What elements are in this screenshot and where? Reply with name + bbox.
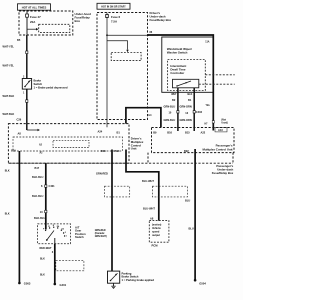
PCM vehicle speed output box: [149, 221, 169, 243]
svg-text:BLK-BLU: BLK-BLU: [32, 194, 43, 198]
svg-text:B17: B17: [35, 166, 40, 170]
arrow branch to sub-box: [27, 28, 38, 31]
svg-text:B15: B15: [185, 131, 190, 135]
wire B22 to ground G504: [194, 149, 196, 280]
svg-text:WHT-YEL: WHT-YEL: [3, 45, 15, 49]
svg-text:BLU-WHT: BLU-WHT: [142, 179, 154, 183]
svg-text:Brake: Brake: [34, 79, 42, 83]
pin A13 not used: [215, 118, 228, 132]
svg-text:Multiplex Control Unit: Multiplex Control Unit: [202, 147, 232, 151]
windshield wiper/washer switch box: [162, 37, 213, 92]
svg-text:BLK-BLU: BLK-BLU: [32, 175, 43, 179]
wire brake switch to multiplex: [26, 89, 28, 124]
driver's under-dash fuse/relay box: [97, 13, 148, 120]
svg-text:G401: G401: [60, 283, 67, 287]
wiper switch caption: [167, 47, 192, 54]
wire A/T switch to ground G401: [54, 244, 56, 284]
under-hood fuse/relay box caption: [75, 12, 92, 23]
mechanical linkage dashes: [199, 83, 235, 85]
ground G504: [194, 279, 207, 285]
svg-text:WHT-YEL: WHT-YEL: [3, 64, 15, 68]
long dashed line driver's bottom and passenger strip: [8, 162, 233, 164]
connector on wire: [177, 111, 179, 113]
svg-text:BLU: BLU: [189, 227, 194, 231]
ground G401: [54, 283, 67, 287]
driver's multiplex control unit: [8, 124, 129, 164]
svg-text:C29: C29: [17, 118, 22, 122]
svg-text:Switch: Switch: [34, 82, 43, 86]
connector on wire: [45, 185, 47, 187]
svg-text:YEL: YEL: [206, 105, 211, 107]
svg-text:BLK: BLK: [40, 259, 45, 261]
svg-text:BLK: BLK: [5, 213, 10, 215]
svg-text:BLK: BLK: [40, 275, 45, 277]
svg-text:GRN-WHT): GRN-WHT): [95, 236, 107, 238]
svg-text:2: 2: [65, 232, 66, 234]
svg-text:1 = Brake pedal depressed: 1 = Brake pedal depressed: [34, 85, 68, 89]
fuse 6: [106, 13, 121, 24]
svg-text:20A: 20A: [30, 20, 36, 24]
mechanical linkage dashes: [205, 74, 234, 76]
svg-text:BLU: BLU: [185, 198, 190, 202]
connector on wire: [26, 100, 28, 103]
svg-text:B1: B1: [117, 131, 121, 135]
svg-text:A24: A24: [98, 130, 103, 134]
svg-text:WHT-BLK: WHT-BLK: [3, 94, 15, 98]
arrow into relay sub-box: [126, 50, 128, 52]
node junction at box edge: [147, 34, 149, 36]
wire wiper B1 down to B15: [193, 88, 195, 131]
driver's multiplex caption: [131, 137, 144, 151]
svg-text:G504: G504: [199, 281, 206, 285]
svg-text:GRN-RED: GRN-RED: [95, 230, 106, 232]
wire fuse47 down inside box: [26, 17, 28, 35]
node junction 36: [106, 34, 108, 36]
power label HOT AT ALL TIMES: [18, 4, 51, 10]
svg-text:HOT AT ALL TIMES: HOT AT ALL TIMES: [22, 5, 47, 9]
svg-text:1 = Parking brake applied: 1 = Parking brake applied: [122, 278, 155, 282]
svg-text:PCM: PCM: [152, 243, 159, 247]
driver's under-dash caption: [150, 11, 172, 22]
wire B17 to A/T gear position switch: [45, 163, 47, 229]
power label HOT IN ON OR START: [97, 3, 130, 9]
pin A8 with input arrow: [18, 124, 40, 136]
svg-text:output: output: [152, 233, 160, 237]
wire color GRN-RED (Canada): [95, 230, 107, 238]
svg-text:GRN-ORN: GRN-ORN: [180, 105, 192, 109]
svg-text:B2: B2: [172, 98, 176, 102]
dashed option box on parking wire: [105, 186, 130, 197]
under-hood fuse/relay box: [19, 11, 73, 35]
wire B5 to brake switch: [26, 35, 28, 79]
svg-text:Washer Switch: Washer Switch: [167, 50, 188, 54]
svg-text:Used): Used): [221, 123, 228, 125]
connector on A22 wire: [212, 121, 214, 123]
svg-text:(Not: (Not: [221, 118, 226, 121]
svg-text:WHT-BLK: WHT-BLK: [3, 112, 15, 116]
intermittent dwell time controller box: [168, 60, 206, 91]
svg-text:G503: G503: [24, 282, 31, 286]
passenger's under-dash fuse/relay box strip: [148, 153, 233, 163]
wire B11 to ground G503: [18, 151, 20, 283]
passenger's multiplex caption: [202, 144, 232, 152]
link wire B1 to B9: [126, 108, 161, 128]
wire fuse6 down to A24: [106, 18, 108, 128]
svg-text:C401: C401: [49, 184, 56, 188]
svg-text:GRN-ORN: GRN-ORN: [180, 118, 192, 122]
brake switch: [22, 79, 31, 90]
svg-text:Fuse 6: Fuse 6: [111, 15, 121, 19]
ground below parking brake switch: [111, 283, 115, 288]
fuse 47: [26, 11, 42, 24]
dashed relay sub-box: [111, 53, 141, 61]
svg-text:HOT IN ON OR START: HOT IN ON OR START: [101, 6, 126, 9]
svg-text:A8: A8: [18, 132, 22, 136]
svg-text:B1: B1: [188, 98, 192, 102]
svg-text:1: 1: [66, 236, 67, 238]
svg-text:Vehicle: Vehicle: [152, 226, 161, 230]
svg-text:Fuse 47: Fuse 47: [30, 15, 41, 19]
dashed option box on ground wire: [56, 260, 84, 270]
svg-text:Brake Switch: Brake Switch: [122, 275, 139, 279]
svg-text:GRN-BLU: GRN-BLU: [164, 105, 176, 109]
svg-text:A13: A13: [218, 128, 223, 132]
parking brake switch: [108, 271, 120, 283]
svg-text:C402: C402: [196, 110, 203, 114]
passenger's multiplex control unit: [152, 128, 235, 153]
svg-text:B22: B22: [184, 149, 189, 153]
svg-text:A22: A22: [201, 131, 206, 135]
svg-text:BLK: BLK: [188, 94, 193, 96]
wire 36 feed to wiper and A22: [148, 35, 214, 131]
svg-text:A8: A8: [150, 217, 154, 221]
connector on wire: [193, 111, 195, 113]
svg-text:B15: B15: [101, 149, 106, 153]
svg-text:Fuse/Relay Box: Fuse/Relay Box: [150, 18, 172, 22]
svg-text:speed: speed: [152, 229, 160, 233]
wire jog to relay: [107, 41, 128, 50]
A/T gear position switch: [38, 224, 71, 244]
svg-text:(Canada:: (Canada:: [95, 233, 105, 235]
svg-text:Fuse/Relay Box: Fuse/Relay Box: [212, 171, 234, 175]
svg-text:Parking: Parking: [122, 271, 132, 275]
svg-text:B5: B5: [17, 38, 21, 42]
svg-text:B16: B16: [167, 131, 172, 135]
connector on wire: [45, 210, 47, 212]
wire 36 inside box: [107, 34, 148, 36]
wire wiper B2 down to B16: [177, 88, 179, 131]
svg-text:7.5A: 7.5A: [111, 20, 118, 24]
ground G503: [18, 282, 31, 286]
dashed sub-box (feed continues): [39, 24, 70, 32]
svg-text:Unit: Unit: [131, 147, 137, 151]
wire B14 to PCM: [126, 150, 159, 221]
connector on wire: [26, 51, 28, 54]
A/T gear switch caption: [75, 226, 86, 240]
svg-text:Switch: Switch: [75, 235, 84, 239]
svg-text:BLK: BLK: [5, 170, 10, 172]
passenger's under-dash caption: [212, 164, 234, 175]
svg-text:GRN-RED: GRN-RED: [96, 172, 108, 176]
parking brake switch caption: [122, 271, 155, 282]
inner dashed component: [53, 140, 89, 147]
variable resistor U1: [173, 79, 199, 88]
svg-text:BLU-WHT: BLU-WHT: [143, 207, 155, 211]
dashed option box on PCM wire: [152, 186, 187, 197]
svg-text:BLK-BLU: BLK-BLU: [34, 216, 45, 220]
svg-text:GRN-BLU: GRN-BLU: [164, 118, 176, 122]
svg-text:B14: B14: [115, 149, 120, 153]
svg-text:RED-WHT: RED-WHT: [40, 246, 52, 250]
svg-text:11A: 11A: [205, 41, 209, 44]
svg-text:B19: B19: [11, 149, 16, 153]
svg-text:B9: B9: [153, 131, 157, 135]
svg-text:Box: Box: [75, 19, 81, 23]
brake switch caption: [34, 79, 68, 90]
svg-text:WHT: WHT: [171, 94, 177, 96]
inner logic dashed box: [13, 137, 123, 151]
svg-text:Controller: Controller: [170, 71, 185, 75]
wire B15 to parking brake switch: [111, 150, 113, 272]
svg-text:D3: D3: [62, 228, 64, 230]
